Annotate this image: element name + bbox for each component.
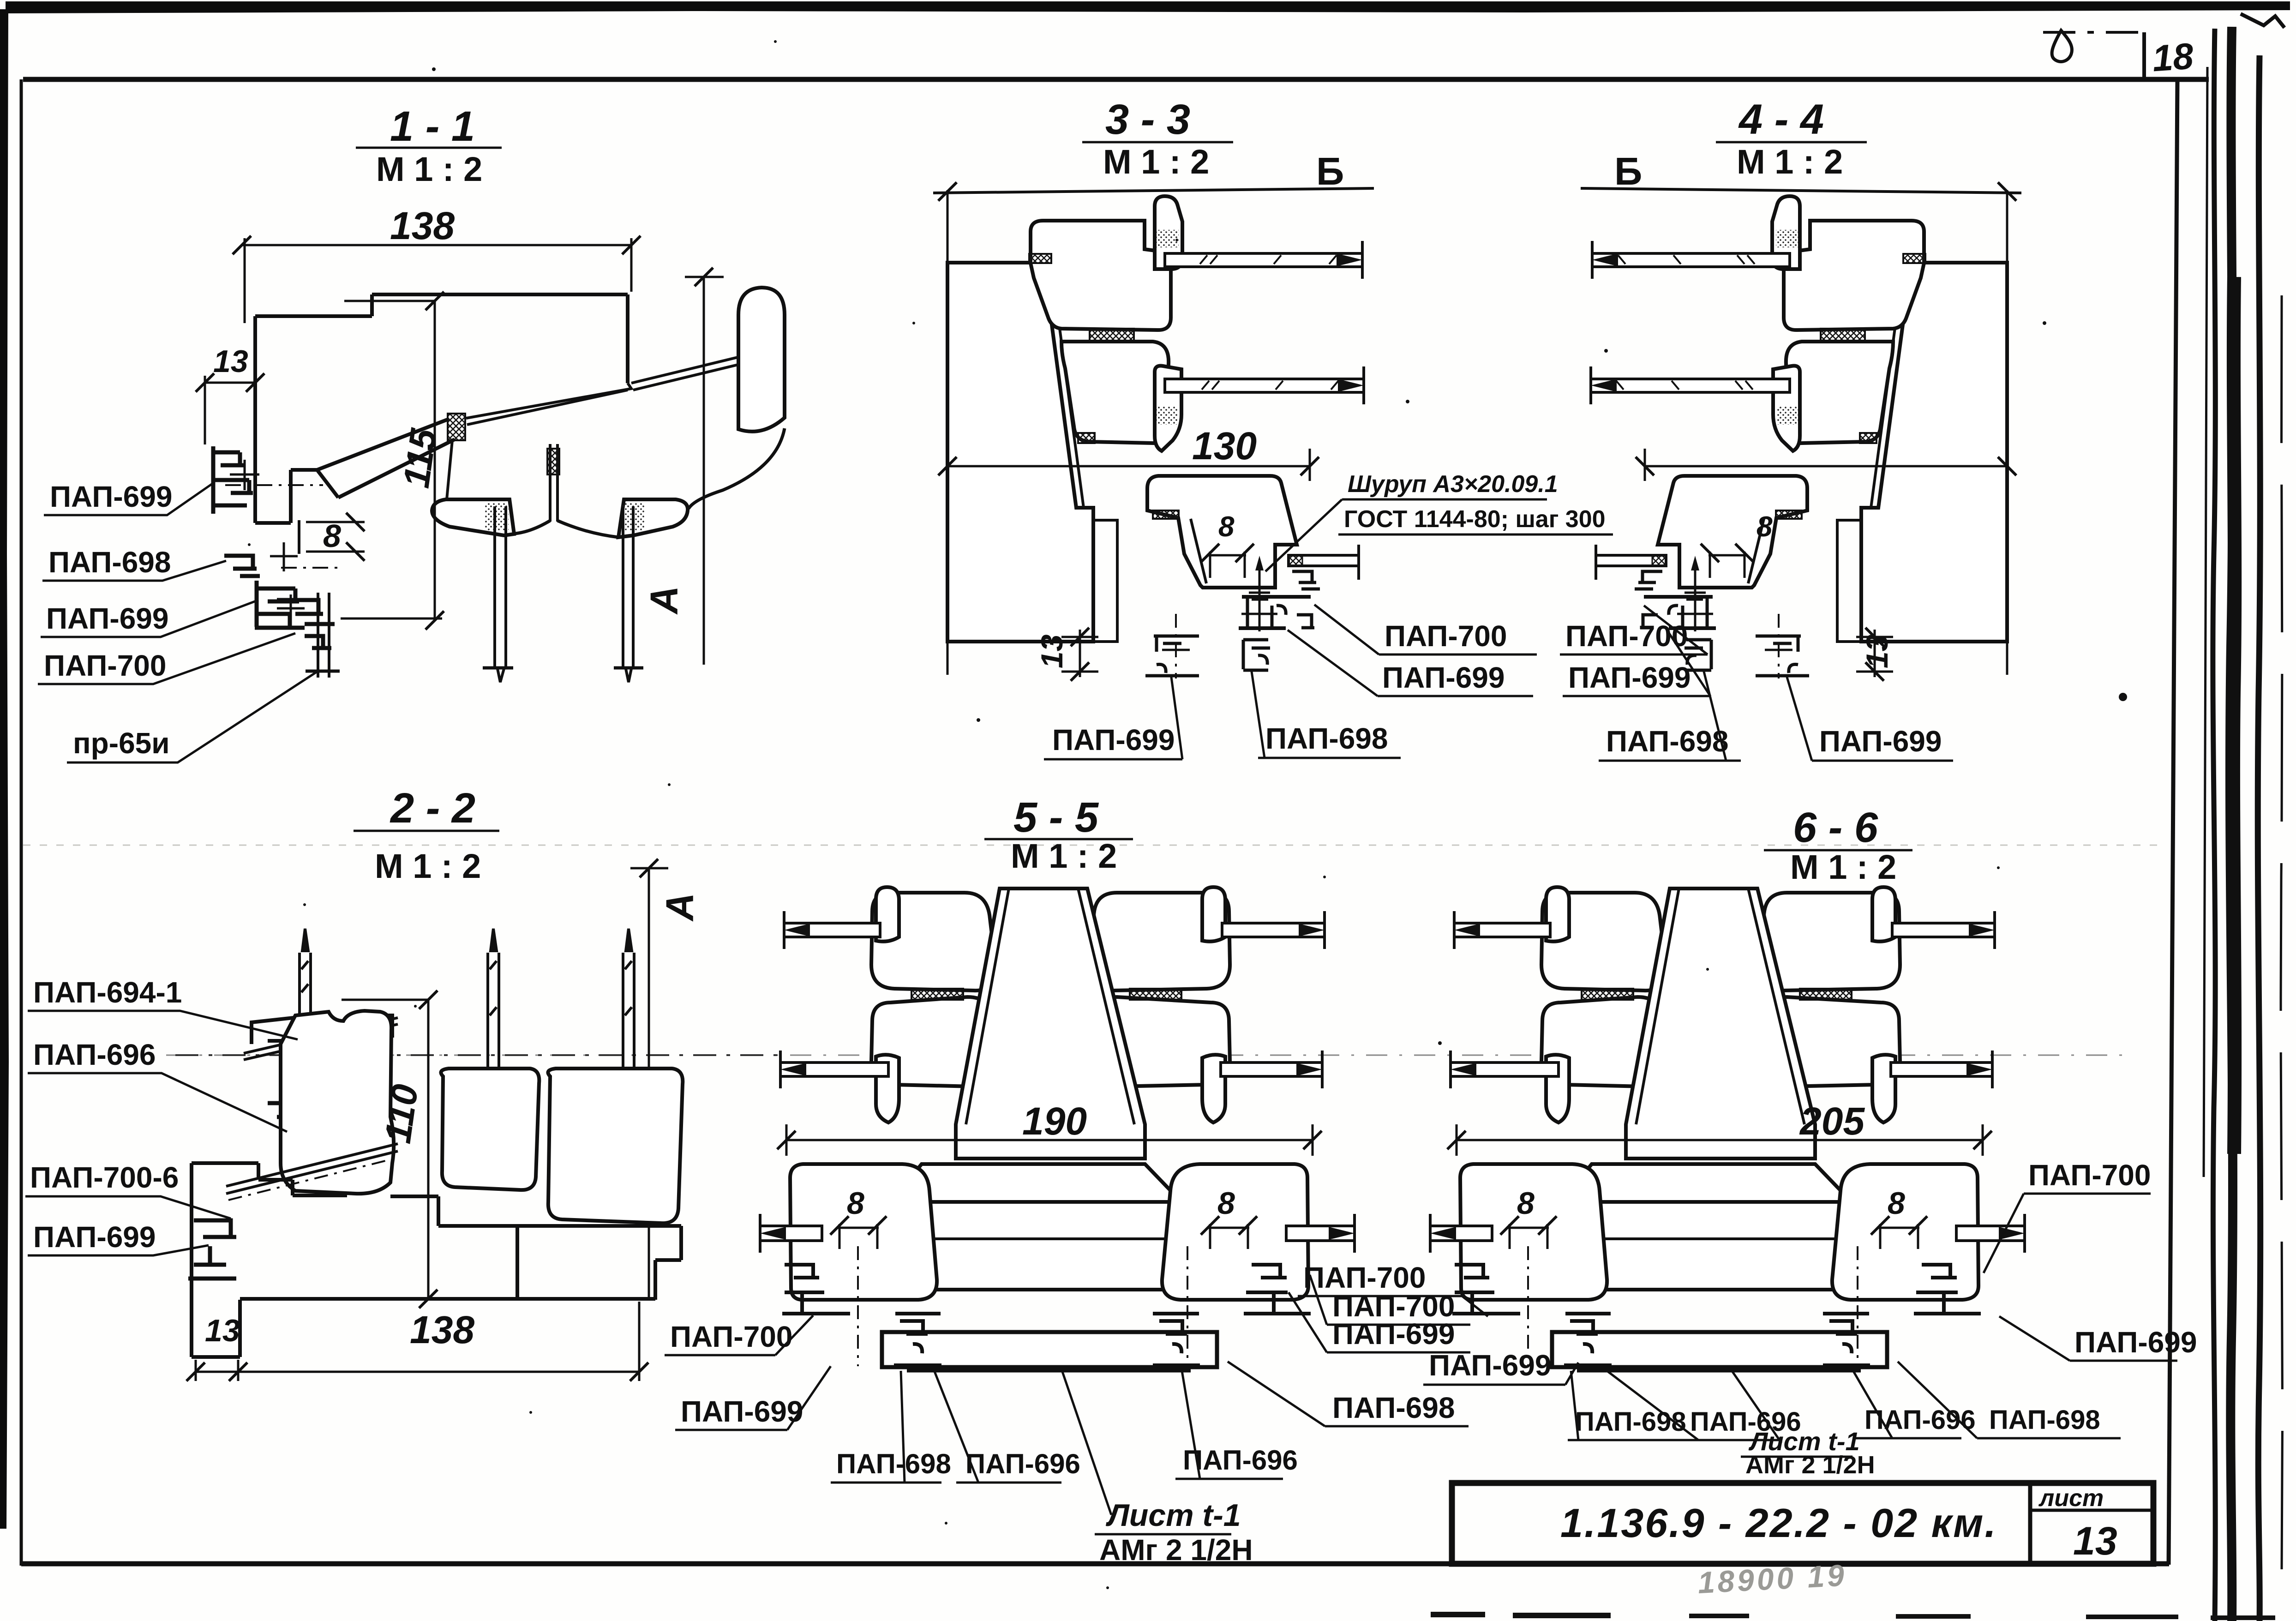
svg-text:130: 130 [1192, 424, 1257, 468]
svg-text:ПАП-699: ПАП-699 [1429, 1349, 1551, 1382]
svg-text:ПАП-698: ПАП-698 [1332, 1391, 1455, 1424]
svg-text:8: 8 [1756, 511, 1773, 543]
svg-text:3 - 3: 3 - 3 [1105, 96, 1190, 143]
svg-text:ПАП-696: ПАП-696 [33, 1038, 156, 1071]
svg-text:ПАП-699: ПАП-699 [50, 480, 172, 513]
svg-text:ПАП-698: ПАП-698 [1575, 1407, 1686, 1437]
svg-text:ГОСТ 1144-80; шаг 300: ГОСТ 1144-80; шаг 300 [1344, 506, 1606, 533]
svg-text:13: 13 [1035, 635, 1069, 668]
svg-text:пр-65и: пр-65и [73, 726, 170, 760]
svg-text:ПАП-699: ПАП-699 [1819, 725, 1942, 758]
svg-text:ПАП-700: ПАП-700 [1332, 1290, 1455, 1323]
svg-text:ПАП-699: ПАП-699 [1568, 661, 1691, 694]
svg-text:АМг 2 1/2Н: АМг 2 1/2Н [1099, 1533, 1253, 1567]
svg-text:ПАП-698: ПАП-698 [48, 546, 171, 579]
svg-text:1 - 1: 1 - 1 [390, 103, 475, 150]
svg-text:18: 18 [2151, 35, 2195, 79]
svg-text:8: 8 [1218, 511, 1235, 543]
svg-text:8: 8 [847, 1186, 864, 1221]
svg-text:ПАП-698: ПАП-698 [1606, 725, 1728, 758]
svg-text:ПАП-700: ПАП-700 [1385, 619, 1507, 653]
svg-text:М 1 : 2: М 1 : 2 [1737, 143, 1843, 181]
svg-text:Б: Б [1614, 150, 1642, 193]
svg-text:190: 190 [1022, 1099, 1087, 1143]
svg-text:13: 13 [205, 1313, 240, 1348]
svg-text:ПАП-700: ПАП-700 [670, 1320, 792, 1353]
svg-text:ПАП-700: ПАП-700 [2028, 1159, 2151, 1192]
svg-text:А: А [642, 586, 686, 615]
svg-text:138: 138 [410, 1308, 474, 1351]
svg-text:ПАП-700: ПАП-700 [44, 649, 166, 682]
svg-text:ПАП-699: ПАП-699 [46, 602, 168, 635]
svg-text:Лист t-1: Лист t-1 [1105, 1498, 1241, 1533]
svg-text:М 1 : 2: М 1 : 2 [376, 150, 482, 188]
svg-text:8: 8 [1217, 1186, 1235, 1221]
svg-text:М 1 : 2: М 1 : 2 [1011, 837, 1117, 875]
svg-text:1.136.9 - 22.2 - 02 км.: 1.136.9 - 22.2 - 02 км. [1560, 1500, 1997, 1546]
svg-text:4 - 4: 4 - 4 [1738, 96, 1824, 143]
svg-text:ПАП-700: ПАП-700 [1303, 1261, 1426, 1294]
svg-text:ПАП-699: ПАП-699 [2074, 1326, 2197, 1359]
svg-text:138: 138 [390, 204, 455, 247]
svg-text:ПАП-696: ПАП-696 [1183, 1445, 1298, 1476]
svg-text:М 1 : 2: М 1 : 2 [375, 847, 481, 885]
svg-text:ПАП-699: ПАП-699 [33, 1220, 156, 1254]
svg-text:115: 115 [396, 426, 444, 490]
svg-text:205: 205 [1799, 1099, 1865, 1143]
svg-text:ПАП-699: ПАП-699 [1052, 723, 1175, 756]
svg-text:ПАП-699: ПАП-699 [681, 1395, 803, 1428]
svg-text:ПАП-699: ПАП-699 [1382, 661, 1505, 694]
svg-text:13: 13 [213, 344, 248, 379]
svg-text:Б: Б [1316, 150, 1344, 193]
svg-text:5 - 5: 5 - 5 [1013, 794, 1099, 841]
svg-text:М 1 : 2: М 1 : 2 [1790, 848, 1896, 886]
svg-text:ПАП-696: ПАП-696 [965, 1448, 1080, 1479]
svg-text:Шуруп А3×20.09.1: Шуруп А3×20.09.1 [1348, 471, 1558, 498]
svg-text:ПАП-698: ПАП-698 [1989, 1405, 2100, 1435]
svg-text:13: 13 [2073, 1519, 2117, 1563]
svg-text:6 - 6: 6 - 6 [1793, 804, 1878, 851]
svg-text:13: 13 [1860, 635, 1894, 668]
svg-text:АМг 2 1/2Н: АМг 2 1/2Н [1745, 1451, 1875, 1479]
svg-text:М 1 : 2: М 1 : 2 [1103, 143, 1209, 181]
svg-text:А: А [658, 893, 701, 922]
svg-text:8: 8 [323, 518, 341, 554]
svg-text:ПАП-700-6: ПАП-700-6 [30, 1161, 179, 1194]
svg-text:ПАП-698: ПАП-698 [836, 1448, 951, 1479]
svg-text:лист: лист [2038, 1485, 2104, 1512]
svg-text:ПАП-694-1: ПАП-694-1 [33, 976, 182, 1009]
svg-text:ПАП-698: ПАП-698 [1265, 722, 1388, 755]
svg-text:110: 110 [377, 1082, 426, 1146]
svg-text:2 - 2: 2 - 2 [390, 785, 475, 832]
